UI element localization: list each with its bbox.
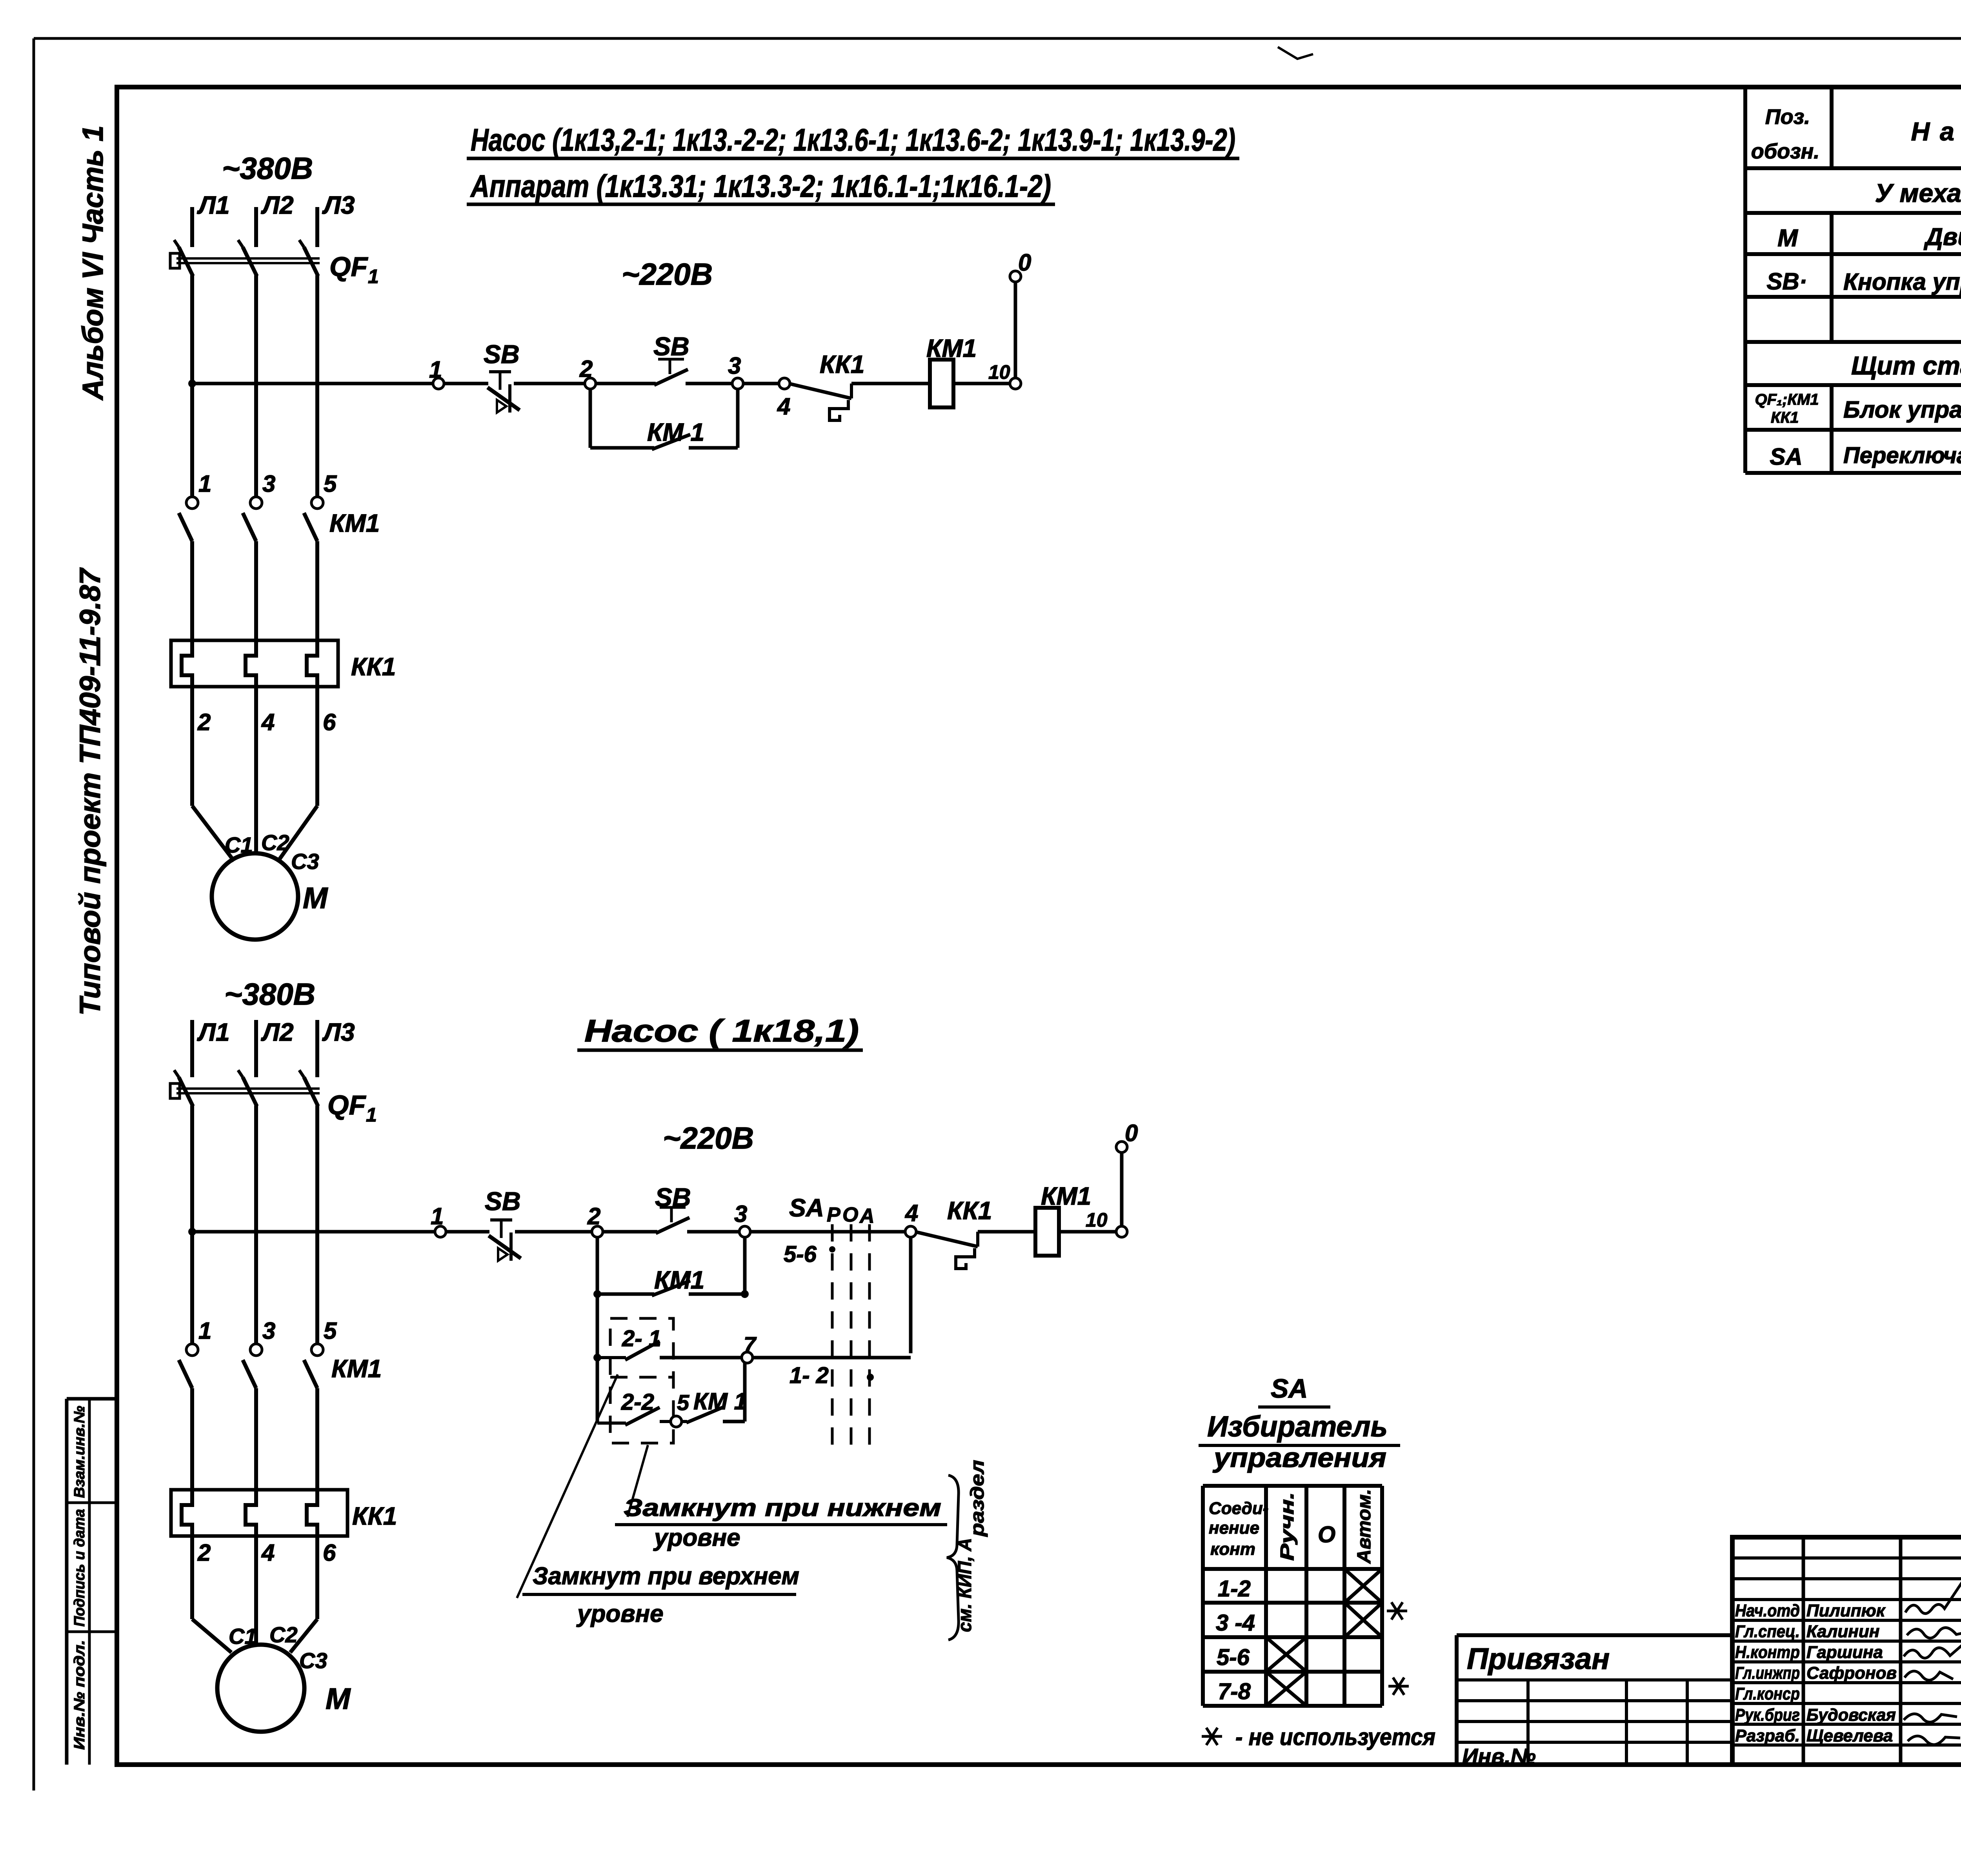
svg-text:Наименование: Наименование [1911,117,1961,146]
svg-text:5: 5 [677,1390,689,1415]
svg-text:уровне: уровне [653,1524,740,1551]
svg-text:Блок управления Б5130 ...: Блок управления Б5130 ... [1843,396,1961,423]
svg-text:обозн.: обозн. [1751,140,1820,163]
svg-text:М: М [326,1682,351,1716]
svg-text:Ручн.: Ручн. [1277,1492,1298,1561]
svg-text:3: 3 [262,471,275,497]
svg-text:3: 3 [728,353,741,379]
svg-text:Разраб.: Разраб. [1735,1726,1800,1745]
svg-text:3 -4: 3 -4 [1216,1610,1255,1636]
svg-text:7-8: 7-8 [1218,1679,1251,1704]
svg-text:Взам.инв.№: Взам.инв.№ [71,1406,88,1498]
svg-text:1: 1 [198,1318,211,1344]
svg-text:Пилипюк: Пилипюк [1806,1601,1886,1620]
svg-text:Гл.инжпр: Гл.инжпр [1735,1663,1800,1683]
svg-text:КМ1: КМ1 [654,1266,704,1294]
svg-text:Щит станций управления: Щит станций управления [1851,351,1961,380]
svg-text:1: 1 [368,265,379,287]
svg-text:КК1: КК1 [351,653,396,681]
svg-text:Л3: Л3 [322,1018,355,1046]
svg-text:Соеди-: Соеди- [1209,1499,1268,1518]
svg-text:Будовская: Будовская [1806,1705,1896,1725]
svg-text:3: 3 [734,1201,747,1227]
svg-text:4: 4 [905,1200,918,1226]
svg-text:5-6: 5-6 [784,1242,817,1267]
svg-text:Поз.: Поз. [1765,105,1810,129]
svg-text:Л2: Л2 [261,191,294,219]
svg-text:Замкнут при нижнем: Замкнут при нижнем [624,1494,941,1522]
svg-text:1: 1 [198,471,211,497]
svg-text:уровне: уровне [576,1600,664,1627]
svg-text:4: 4 [777,393,790,420]
svg-text:Насос (1к13,2-1; 1к13.-2-2; 1к: Насос (1к13,2-1; 1к13.-2-2; 1к13.6-1; 1к… [471,122,1235,157]
svg-text:C2: C2 [261,830,289,855]
svg-text:6: 6 [323,709,336,735]
svg-text:см. КИП, А: см. КИП, А [955,1538,975,1632]
svg-text:SА: SА [1770,444,1802,470]
svg-text:Инв.№: Инв.№ [1462,1744,1536,1769]
svg-text:Р: Р [827,1203,840,1226]
svg-text:10: 10 [988,361,1010,383]
svg-text:нение: нение [1209,1518,1259,1538]
svg-text:КМ1: КМ1 [331,1354,382,1383]
svg-text:2: 2 [197,709,211,735]
svg-text:Двигатель: Двигатель [1923,224,1961,251]
svg-text:~220В: ~220В [622,257,713,291]
svg-text:Инв.№ подл.: Инв.№ подл. [71,1640,88,1750]
svg-text:Альбом VI Часть 1: Альбом VI Часть 1 [76,125,109,401]
svg-text:Сафронов: Сафронов [1806,1663,1897,1683]
svg-text:Автом.: Автом. [1354,1489,1375,1564]
svg-text:Гаршина: Гаршина [1806,1643,1883,1662]
svg-text:Нач.отд: Нач.отд [1735,1601,1800,1620]
svg-text:4: 4 [261,709,275,735]
svg-text:4: 4 [261,1540,275,1566]
svg-text:Избиратель: Избиратель [1207,1410,1388,1443]
svg-text:КК1: КК1 [1771,409,1799,426]
svg-text:управления: управления [1213,1442,1386,1473]
svg-text:Переключатель ПКУЗ-16 с 2001: Переключатель ПКУЗ-16 с 2001-УЗ [1843,443,1961,468]
svg-text:КМ 1: КМ 1 [647,418,704,446]
svg-text:У механизма: У механизма [1875,178,1961,207]
svg-text:QF: QF [327,1090,366,1120]
svg-text:2: 2 [197,1540,211,1566]
svg-text:Типовой проект ТП409-11-9.87: Типовой проект ТП409-11-9.87 [74,567,106,1016]
svg-text:конт: конт [1210,1540,1255,1559]
svg-text:SB: SB [484,340,520,369]
svg-text:1-2: 1-2 [1218,1576,1251,1602]
svg-text:QF: QF [329,251,368,282]
svg-text:Гл.конср: Гл.конср [1735,1684,1800,1703]
svg-text:C2: C2 [269,1622,298,1647]
svg-text:раздел: раздел [967,1460,988,1538]
svg-text:Привязан: Привязан [1467,1642,1610,1676]
svg-text:Гл.спец.: Гл.спец. [1735,1622,1800,1641]
svg-text:QF₁;КМ1: QF₁;КМ1 [1755,391,1819,408]
svg-text:Н.контр: Н.контр [1735,1643,1800,1662]
svg-text:~220В: ~220В [663,1121,754,1155]
svg-text:Аппарат (1к13.31; 1к13.3-2; 1к: Аппарат (1к13.31; 1к13.3-2; 1к16.1-1;1к1… [470,169,1051,204]
svg-text:Щевелева: Щевелева [1806,1726,1893,1745]
svg-text:Калинин: Калинин [1806,1622,1879,1641]
svg-text:1: 1 [431,1203,444,1229]
svg-text:C3: C3 [291,849,319,874]
svg-text:1: 1 [429,356,442,383]
svg-text:5: 5 [324,1318,337,1344]
svg-text:0: 0 [1125,1120,1138,1146]
svg-text:Насос ( 1к18,1): Насос ( 1к18,1) [584,1013,859,1048]
svg-text:КМ1: КМ1 [329,509,380,537]
svg-text:SА: SА [1271,1374,1308,1403]
svg-text:Замкнут при верхнем: Замкнут при верхнем [533,1563,799,1590]
svg-text:10: 10 [1086,1209,1108,1231]
svg-text:Подпись и дата: Подпись и дата [71,1509,88,1627]
svg-text:2: 2 [579,356,593,382]
svg-text:М: М [1777,225,1798,252]
svg-text:Л1: Л1 [197,1018,230,1046]
svg-text:SА: SА [789,1194,824,1222]
svg-text:5: 5 [324,471,337,497]
svg-text:~380В: ~380В [224,977,315,1011]
svg-text:0: 0 [1018,249,1031,276]
svg-text:SB: SB [653,332,689,361]
svg-text:7: 7 [744,1332,757,1357]
svg-text:Кнопка управления КУ92 ВЗГ: Кнопка управления КУ92 ВЗГ [1843,269,1961,295]
svg-text:Рук.бриг: Рук.бриг [1735,1705,1800,1725]
svg-text:КК1: КК1 [352,1502,397,1530]
svg-text:2- 1: 2- 1 [622,1326,661,1351]
svg-text:5-6: 5-6 [1217,1645,1250,1670]
svg-text:О: О [1318,1522,1335,1547]
svg-text:C3: C3 [299,1648,327,1673]
svg-text:C1: C1 [229,1624,257,1649]
svg-text:1- 2: 1- 2 [789,1363,829,1388]
svg-text:КК1: КК1 [947,1196,992,1225]
svg-text:О: О [842,1203,858,1226]
svg-text:SB·: SB· [1766,268,1807,294]
svg-text:3: 3 [262,1318,275,1344]
svg-text:Л3: Л3 [322,191,355,219]
svg-text:6: 6 [323,1540,336,1566]
svg-text:КК1: КК1 [820,350,864,378]
svg-text:C1: C1 [225,833,253,857]
svg-text:1: 1 [366,1104,377,1126]
svg-text:А: А [859,1205,875,1227]
svg-text:- не используется: - не используется [1235,1724,1435,1750]
svg-text:Л1: Л1 [197,191,230,219]
svg-text:SB: SB [485,1187,521,1216]
svg-text:М: М [303,882,328,915]
svg-text:~380В: ~380В [222,151,313,185]
svg-text:2: 2 [587,1203,600,1229]
svg-text:Л2: Л2 [261,1018,294,1046]
svg-text:КМ 1: КМ 1 [693,1388,747,1414]
